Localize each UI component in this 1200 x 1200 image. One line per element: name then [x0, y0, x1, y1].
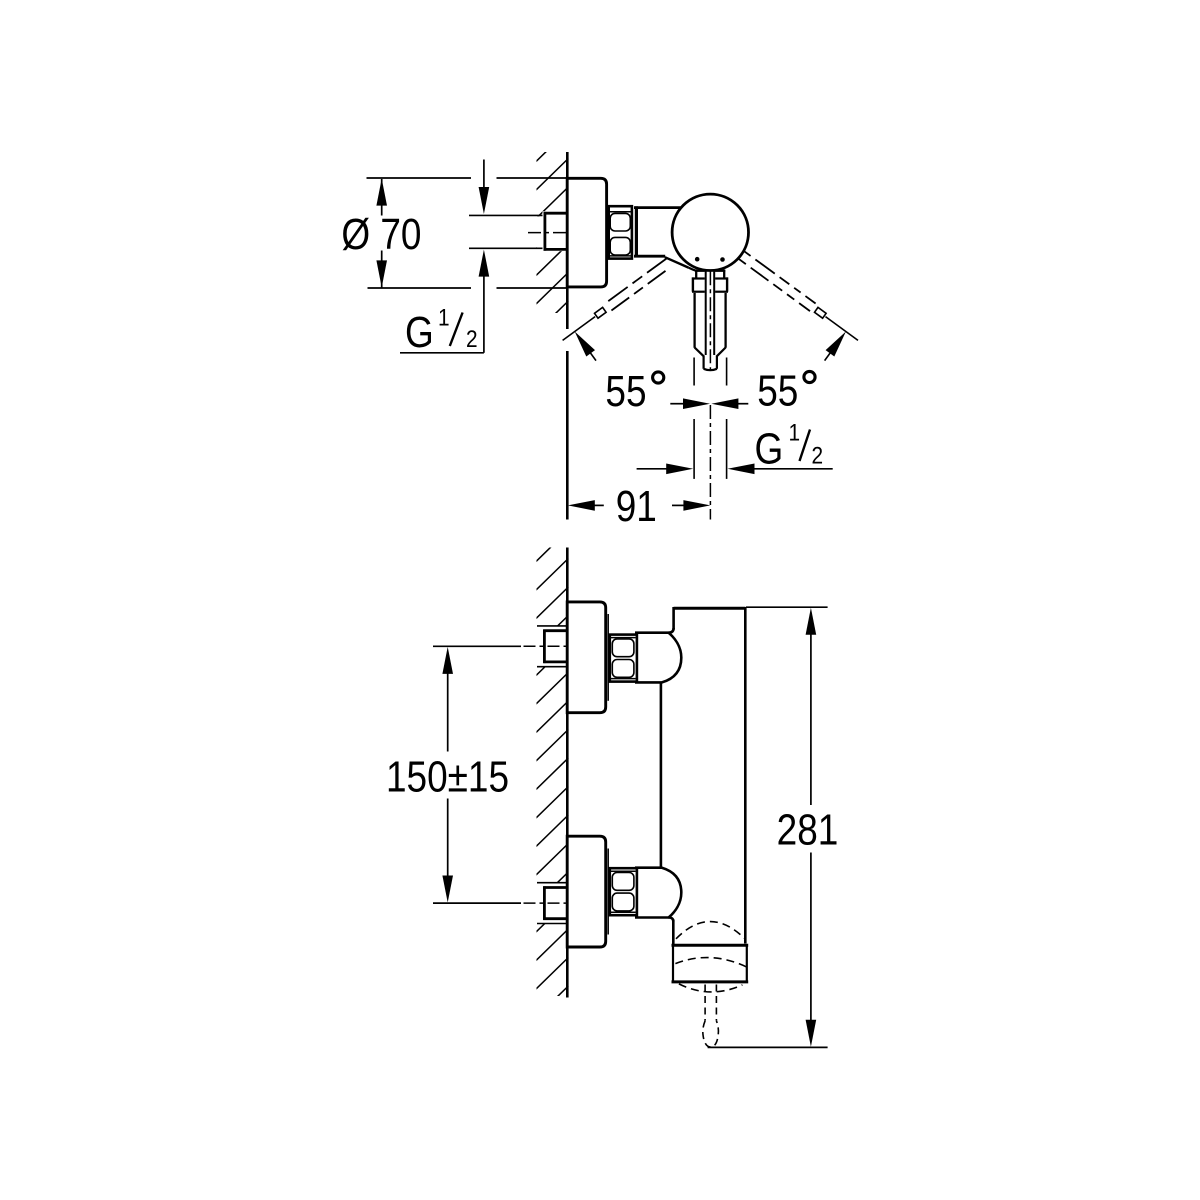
dimension 150±15 extension lines	[433, 645, 521, 647]
shower outlet collar (bottom view)	[673, 945, 747, 982]
wall socket body (top view)	[543, 211, 570, 251]
svg-text:281: 281	[777, 804, 839, 854]
svg-text:G: G	[755, 423, 784, 473]
svg-text:150±15: 150±15	[386, 751, 509, 801]
handle blade slot lines (top view)	[705, 269, 707, 355]
svg-text:55: 55	[757, 366, 798, 416]
supply pipe bore (top view)	[468, 216, 570, 247]
escutcheon (top view)	[567, 178, 606, 287]
wall face line (top view)	[566, 152, 569, 329]
svg-text:1: 1	[438, 303, 450, 331]
hidden arc inside collar	[675, 958, 746, 967]
wall socket edges (top view)	[544, 212, 569, 215]
svg-text:2: 2	[466, 324, 478, 352]
svg-text:1: 1	[789, 418, 801, 446]
wall socket lower (bottom view)	[536, 883, 570, 924]
socket centerline (top view)	[528, 232, 568, 234]
handle collar (top view)	[692, 277, 728, 291]
escutcheon rim line upper	[607, 614, 609, 701]
svg-text:G: G	[405, 307, 434, 357]
cone lower transition (top view)	[665, 257, 689, 267]
wall socket upper (bottom view)	[536, 626, 570, 667]
dimension 150±15 arrows	[442, 647, 453, 674]
union nut (top view)	[609, 206, 632, 258]
55° angle arrows at centerline	[670, 403, 686, 405]
union nut upper (bottom view)	[610, 635, 637, 682]
hose nipple hidden outline	[704, 985, 706, 1021]
phantom lever swung right 55°	[739, 251, 858, 360]
handle neck (top view)	[695, 270, 725, 279]
hidden arc above collar	[676, 922, 745, 940]
bottom view: wall hatching	[535, 530, 569, 1048]
supply pipe bottom edge (top view)	[469, 247, 544, 249]
dimension Ø70 arrows	[376, 179, 387, 206]
dimension 91 arrows	[568, 500, 595, 511]
body step to upper elbow	[669, 628, 674, 633]
dimension Ø70 extension lines	[367, 177, 472, 179]
handle lever shaft (top view)	[695, 293, 726, 370]
body step to lower elbow	[669, 918, 674, 922]
escutcheon lower (bottom view)	[567, 836, 606, 947]
lower inlet elbow (bottom view)	[636, 868, 681, 918]
marker dots on sphere	[695, 257, 700, 262]
handle width extension lines	[693, 358, 695, 386]
top view: wall hatching	[535, 130, 569, 363]
valve body cone (top view)	[634, 206, 681, 209]
svg-text:Ø 70: Ø 70	[341, 209, 421, 259]
valve sphere (top view)	[672, 194, 748, 270]
hidden arc below collar	[679, 984, 743, 992]
svg-text:55: 55	[605, 366, 646, 416]
dimension G1/2 leader (top)	[483, 160, 485, 189]
escutcheon rim line lower	[607, 849, 609, 935]
dimension 281 arrows	[806, 608, 817, 635]
wall face line (bottom view)	[566, 548, 569, 998]
union nut lower (bottom view)	[610, 868, 637, 915]
svg-text:2: 2	[812, 441, 824, 469]
mixer body outline (bottom view)	[674, 607, 746, 610]
dimension 281 extension lines	[746, 606, 828, 608]
svg-text:91: 91	[616, 481, 657, 531]
supply pipe top edge (top view)	[469, 214, 544, 216]
escutcheon upper (bottom view)	[567, 602, 606, 713]
label G 1/2 (handle)	[755, 418, 824, 473]
phantom lever swung left 55°	[563, 259, 667, 361]
handle centerline	[709, 271, 711, 371]
dimension G1/2 arrows (handle)	[637, 468, 668, 470]
upper inlet elbow (bottom view)	[636, 633, 681, 683]
label G 1/2 (top)	[405, 303, 478, 357]
